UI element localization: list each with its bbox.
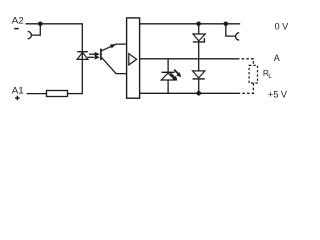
label A2 xyxy=(12,15,24,25)
LED D1 input (optocoupler emitter diode) xyxy=(77,51,88,53)
wire A1 horizontal xyxy=(27,93,47,95)
wire LED branch vertical xyxy=(81,24,83,94)
svg-text:L: L xyxy=(268,74,272,80)
svg-text:0 V: 0 V xyxy=(275,22,289,32)
node dot 0V terminal xyxy=(224,22,229,27)
LED D2 status indicator xyxy=(167,59,169,73)
wire resistor to LED branch xyxy=(68,93,83,95)
lightning arrows of LED D2 xyxy=(174,70,181,78)
wire terminal stub 0V xyxy=(226,24,235,36)
terminal socket 0V xyxy=(235,33,239,40)
svg-text:+5 V: +5 V xyxy=(268,90,287,100)
resistor R input xyxy=(47,91,68,97)
wire A2 horizontal xyxy=(26,23,83,25)
phototransistor Q1 collector xyxy=(102,58,127,74)
minus polarity sign at A2 xyxy=(14,28,19,30)
label 0V xyxy=(275,22,289,32)
wire dashed to load xyxy=(237,59,254,66)
optocoupler light arrow upper xyxy=(89,53,96,55)
svg-text:A1: A1 xyxy=(12,85,24,95)
amplifier triangle xyxy=(129,54,137,65)
label A output xyxy=(274,53,280,63)
optocoupler light arrow lower xyxy=(88,56,95,58)
svg-text:A: A xyxy=(274,53,280,63)
resistor RL load (dashed) xyxy=(249,65,257,83)
phototransistor Q1 emitter with arrow xyxy=(102,44,127,51)
node dot +5V rail xyxy=(196,91,201,96)
wire terminal stub A2 xyxy=(31,24,40,35)
label A1 xyxy=(12,85,24,95)
wire output rail A xyxy=(140,58,237,60)
zener diode Z1 xyxy=(198,24,200,34)
wire dashed load to +5V xyxy=(238,83,253,93)
plus polarity sign at A1 xyxy=(15,96,20,100)
phototransistor Q1 base bar xyxy=(100,49,102,61)
wire +5V rail xyxy=(140,92,239,94)
svg-text:A2: A2 xyxy=(12,15,24,25)
terminal socket A2 xyxy=(28,31,32,38)
node A2 junction dot xyxy=(38,22,43,27)
node dot zener top xyxy=(196,22,201,27)
label +5V xyxy=(268,90,287,100)
label RL xyxy=(263,68,273,80)
wire 0V rail xyxy=(140,23,241,25)
diode D3 freewheel xyxy=(193,71,205,78)
amplifier box U1 xyxy=(127,18,140,98)
